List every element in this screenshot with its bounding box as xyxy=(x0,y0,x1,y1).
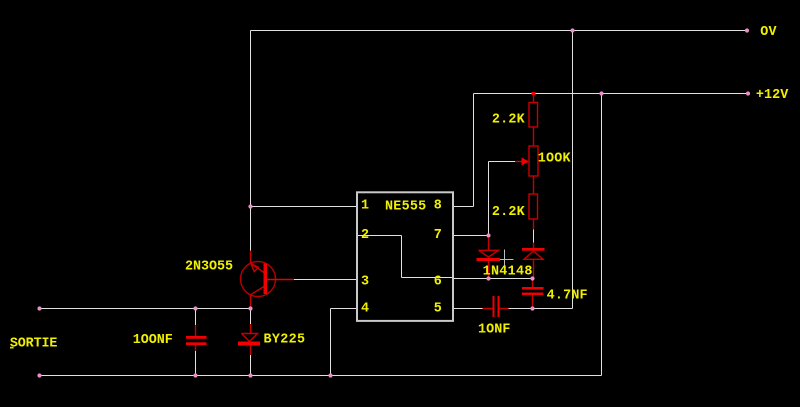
svg-text:OV: OV xyxy=(760,25,777,40)
svg-text:8: 8 xyxy=(434,198,442,213)
svg-text:2N3O55: 2N3O55 xyxy=(185,260,233,275)
svg-text:6: 6 xyxy=(434,274,442,289)
svg-text:NE555: NE555 xyxy=(385,200,426,215)
svg-text:2: 2 xyxy=(361,228,369,243)
svg-text:BY225: BY225 xyxy=(264,333,306,348)
svg-text:+12V: +12V xyxy=(756,88,789,103)
svg-text:1N4148: 1N4148 xyxy=(483,265,533,280)
svg-text:2.2K: 2.2K xyxy=(492,205,526,220)
svg-text:1OONF: 1OONF xyxy=(133,333,173,348)
svg-text:4.7NF: 4.7NF xyxy=(547,288,588,303)
svg-text:4: 4 xyxy=(361,302,369,317)
svg-text:1ONF: 1ONF xyxy=(478,323,510,338)
svg-text:1: 1 xyxy=(361,198,369,213)
svg-text:7: 7 xyxy=(434,228,442,243)
svg-text:3: 3 xyxy=(361,274,369,289)
svg-text:5: 5 xyxy=(434,302,442,317)
svg-text:1OOK: 1OOK xyxy=(538,152,572,167)
svg-text:2.2K: 2.2K xyxy=(492,113,526,128)
svg-text:SORTIE: SORTIE xyxy=(10,337,58,352)
